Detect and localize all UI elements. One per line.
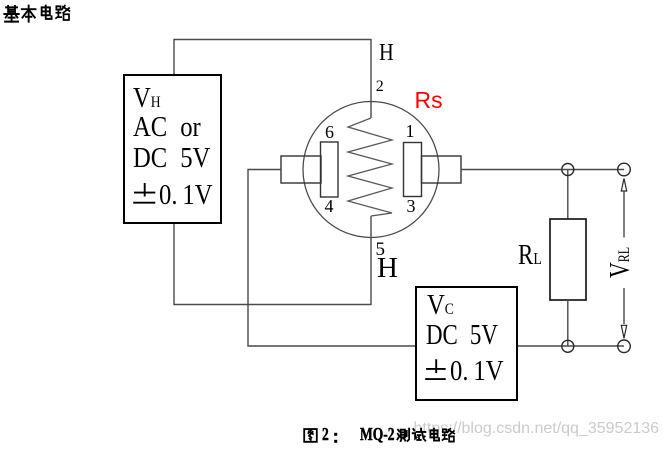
wire: RL bottom to bottom junction [567,300,569,346]
watermark [414,421,660,437]
caption 测 [397,429,409,441]
electrode plate pin6/4 [321,142,339,197]
title 路 [56,6,69,20]
junction node circle bottom [562,340,574,352]
wire: junction down to RL [567,170,569,220]
right lead square [422,156,462,183]
caption 电 (2) [430,429,439,441]
pin number 3 [407,197,416,215]
VRL arrow line lower [623,288,625,324]
terminal circle bottom right [618,340,631,353]
terminal circle top right [618,163,631,176]
label DC 5V (VC) [426,321,498,350]
pin number 5 [376,240,386,259]
pin number 4 [325,197,334,215]
heater supply box VH [123,74,222,224]
pin number 2 [376,79,384,95]
label VRL rotated [606,224,635,278]
title 电 [42,6,52,19]
label AC or [133,113,201,142]
label RL [518,242,542,270]
wire: VC box right to bottom terminal [518,345,624,347]
resistor Rs zigzag (sensing element) [348,118,392,216]
caption 路 (2) [443,429,455,442]
electrode plate pin1/3 [404,143,422,197]
wire: right square to right terminal [461,169,624,171]
label VC [427,291,454,320]
sensor body circle (MQ-2) [303,102,439,238]
VRL arrow up head [621,179,626,192]
label H top [379,41,394,65]
pin number 1 [406,122,415,140]
junction node circle top [562,164,574,176]
caption fullwidth colon [334,433,337,443]
VRL arrow line upper [623,191,625,238]
resistor RL body [550,219,586,300]
label H bottom [377,254,398,283]
wire top: VH box top to sensor pin 2 [174,40,371,119]
VRL arrow down head [621,325,626,338]
caption 试 [413,429,426,441]
caption "2:" latin part [322,425,329,443]
label Rs (red) [415,89,443,112]
label 0.1V (VC, after plus-minus) [450,357,504,386]
label 0.1V (heater, after plus-minus) [159,181,213,210]
plus-minus VC [425,359,446,379]
title 基 [4,6,18,22]
label DC 5V (heater) [133,144,210,173]
title 本 [22,6,36,22]
wire bottom: zigzag bottom down, left, up to VH box bottom [174,216,371,305]
caption 图 [304,429,317,442]
left lead square [281,156,321,183]
pin number 6 [325,123,334,141]
VC supply box [415,286,518,401]
label VH [133,84,161,113]
wire: left square to VC box [248,170,415,347]
plus-minus VH [133,183,155,203]
